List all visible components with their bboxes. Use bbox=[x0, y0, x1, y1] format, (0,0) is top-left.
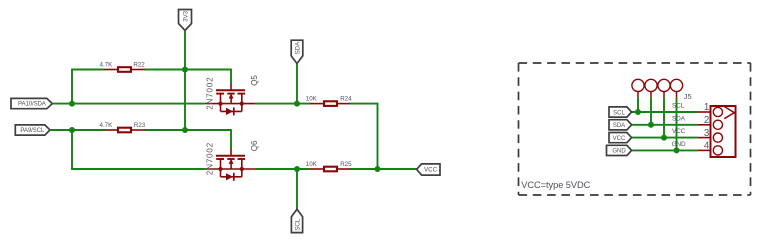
junction (72,130) bbox=[69, 127, 75, 133]
net tag SDA (J5) bbox=[609, 120, 632, 130]
pad circle P3 bbox=[658, 79, 670, 97]
junction (72,103.6) bbox=[69, 101, 75, 107]
svg-text:4.7K: 4.7K bbox=[100, 122, 114, 129]
supply flag 3V3 bbox=[179, 10, 192, 31]
svg-text:GND: GND bbox=[672, 141, 686, 148]
junction (651,124.8) bbox=[648, 122, 654, 128]
svg-text:R25: R25 bbox=[340, 161, 352, 168]
wire 3V3 vertical rail bbox=[184, 31, 186, 131]
svg-text:Q5: Q5 bbox=[250, 75, 259, 86]
svg-text:2: 2 bbox=[704, 115, 709, 126]
pad circle P2 bbox=[645, 79, 657, 97]
resistor R25 10K bbox=[306, 161, 352, 171]
net tag SCL (J5) bbox=[609, 107, 632, 117]
wire SDA row J5 bbox=[632, 124, 698, 126]
svg-text:4: 4 bbox=[704, 141, 710, 152]
pin lead 1 bbox=[698, 111, 711, 113]
pin lead 4 bbox=[698, 149, 711, 151]
wire pad columns bbox=[638, 98, 677, 151]
svg-text:SDA: SDA bbox=[294, 41, 301, 55]
junction (377.5,169) bbox=[375, 166, 381, 172]
svg-text:R23: R23 bbox=[134, 122, 146, 129]
svg-text:R22: R22 bbox=[133, 61, 145, 68]
net tag VCC bbox=[417, 164, 440, 175]
svg-text:1: 1 bbox=[704, 102, 709, 113]
svg-text:SDA: SDA bbox=[613, 123, 625, 129]
net tag PA9/SCL bbox=[15, 125, 50, 135]
svg-text:GND: GND bbox=[612, 149, 626, 155]
svg-text:10K: 10K bbox=[306, 96, 318, 103]
svg-text:3V3: 3V3 bbox=[183, 10, 190, 22]
junction (185,130) bbox=[182, 127, 188, 133]
svg-text:2N7002: 2N7002 bbox=[206, 142, 215, 175]
svg-text:2N7002: 2N7002 bbox=[206, 77, 215, 110]
svg-text:VCC=type 5VDC: VCC=type 5VDC bbox=[521, 180, 590, 190]
svg-text:VCC: VCC bbox=[613, 136, 626, 142]
svg-text:SCL: SCL bbox=[294, 218, 301, 231]
resistor R23 4.7K bbox=[100, 122, 146, 132]
net tag GND (J5) bbox=[607, 145, 632, 155]
wire SCL row bbox=[50, 129, 231, 169]
transistor Q5 2N7002 bbox=[205, 75, 259, 116]
pad circle P1 bbox=[632, 79, 644, 97]
wire GND row J5 bbox=[632, 149, 698, 151]
wire SCL row J5 bbox=[632, 111, 698, 113]
dashed boundary box bbox=[519, 63, 751, 195]
svg-text:10K: 10K bbox=[306, 161, 318, 168]
wire VCC row J5 bbox=[632, 137, 698, 139]
wire SDA row bbox=[52, 103, 377, 169]
net tag PA10/SDA bbox=[11, 98, 52, 108]
svg-text:PA9/SCL: PA9/SCL bbox=[20, 127, 45, 134]
junction (297,103.6) bbox=[294, 101, 300, 107]
svg-text:4.7K: 4.7K bbox=[100, 61, 114, 68]
transistor Q6 2N7002 bbox=[205, 140, 259, 181]
wire SDA flag drop bbox=[296, 64, 298, 104]
svg-text:SCL: SCL bbox=[672, 103, 685, 110]
wire Q6 drain row to VCC bbox=[255, 168, 417, 170]
svg-text:R24: R24 bbox=[340, 96, 352, 103]
svg-text:3: 3 bbox=[704, 128, 710, 139]
svg-text:PA10/SDA: PA10/SDA bbox=[18, 100, 47, 107]
svg-text:VCC: VCC bbox=[424, 167, 438, 174]
svg-text:VCC: VCC bbox=[672, 128, 686, 135]
pad circle P4 bbox=[670, 79, 682, 97]
junction (297,169) bbox=[294, 166, 300, 172]
wire gate row Q5 (3V3 to R22 left corner) bbox=[72, 69, 231, 104]
resistor R24 10K bbox=[306, 96, 352, 106]
resistor R22 4.7K bbox=[100, 61, 146, 71]
svg-text:J5: J5 bbox=[684, 92, 692, 101]
supply flag SDA bbox=[291, 40, 303, 63]
junction (664,137.6) bbox=[661, 135, 667, 141]
junction (185,69.5) bbox=[182, 67, 188, 73]
svg-text:SDA: SDA bbox=[672, 115, 686, 122]
pin lead 2 bbox=[698, 124, 711, 126]
svg-text:SCL: SCL bbox=[613, 110, 625, 116]
supply flag SCL bbox=[291, 209, 302, 232]
connector J5 bbox=[684, 92, 736, 157]
pin lead 3 bbox=[698, 137, 711, 139]
junction (638,112) bbox=[635, 109, 641, 115]
svg-text:Q6: Q6 bbox=[250, 140, 259, 151]
junction (676.5,150.4) bbox=[674, 147, 680, 153]
net tag VCC (J5) bbox=[609, 133, 632, 143]
wire SCL flag drop bbox=[296, 169, 298, 209]
